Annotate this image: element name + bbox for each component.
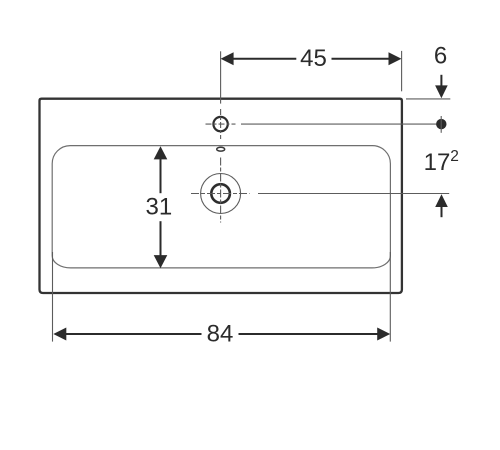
extension line right of dim 84: [389, 252, 391, 342]
dimension 31 lower arrow: [154, 221, 168, 268]
top edge extension line right: [406, 98, 450, 100]
drain centerline vertical: [220, 158, 222, 223]
dimension text 17 superscript 2: [424, 148, 459, 176]
drain axis leader line: [258, 193, 449, 195]
dimension line 84: [53, 328, 390, 341]
drain centerline horizontal: [191, 193, 250, 195]
drain hole outer circle: [201, 174, 241, 214]
washbasin outer outline: [40, 99, 402, 293]
faucet axis leader line: [241, 123, 440, 125]
svg-text:2: 2: [450, 148, 459, 165]
extension line left of dim 45 / faucet axis: [220, 51, 222, 103]
dimension text 84: [207, 320, 234, 347]
svg-text:17: 17: [424, 149, 451, 176]
overflow slot: [217, 147, 225, 151]
drain hole inner circle: [211, 184, 230, 203]
svg-text:45: 45: [300, 45, 327, 72]
dimension 31 upper arrow: [154, 146, 168, 193]
faucet hole centerline horizontal: [206, 123, 236, 125]
svg-text:6: 6: [434, 43, 447, 70]
extension line left of dim 84: [52, 252, 54, 342]
dimension text 31: [146, 194, 173, 221]
dimension line 45: [221, 52, 402, 65]
dimension text 45: [300, 45, 327, 72]
dimension arrow 6 (down): [435, 75, 448, 98]
faucet hole centerline vertical: [220, 109, 222, 139]
svg-text:31: 31: [146, 194, 173, 221]
inner basin outline: [52, 146, 390, 268]
dimension arrow 17 (up): [435, 194, 448, 217]
extension line right of dim 45: [401, 51, 403, 91]
svg-text:84: 84: [207, 320, 234, 347]
reference dot: [436, 116, 446, 133]
faucet hole: [213, 117, 227, 131]
dimension text 6: [434, 43, 447, 70]
